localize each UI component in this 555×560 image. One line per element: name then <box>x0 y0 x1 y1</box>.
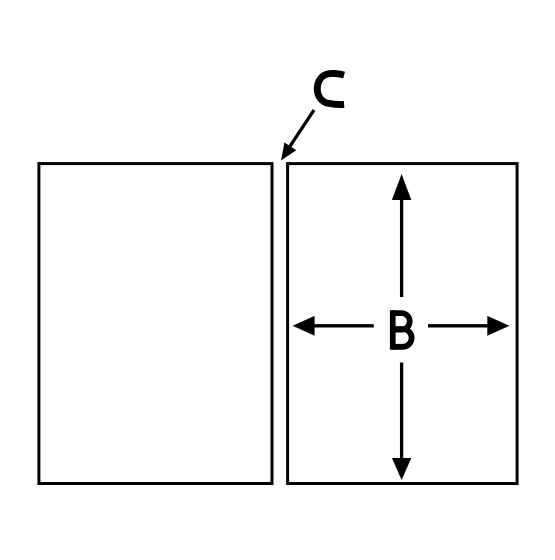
left rectangle (panel) <box>39 164 272 484</box>
horizontal dimension arrow right shaft <box>428 324 489 327</box>
label B lower bowl <box>392 329 412 347</box>
vertical dimension arrow lower shaft <box>400 363 403 461</box>
horizontal dimension arrow left shaft <box>313 324 374 327</box>
label C <box>317 73 344 104</box>
label B stem <box>390 310 396 350</box>
right arrowhead <box>487 316 509 336</box>
vertical dimension arrow upper shaft <box>400 198 403 297</box>
leader line from C <box>288 110 315 150</box>
down arrowhead <box>392 458 411 480</box>
leader arrowhead pointing at gap <box>281 142 296 160</box>
label B upper bowl <box>392 313 410 330</box>
right rectangle (panel) <box>288 164 517 484</box>
up arrowhead <box>392 174 411 200</box>
left arrowhead <box>293 316 315 336</box>
